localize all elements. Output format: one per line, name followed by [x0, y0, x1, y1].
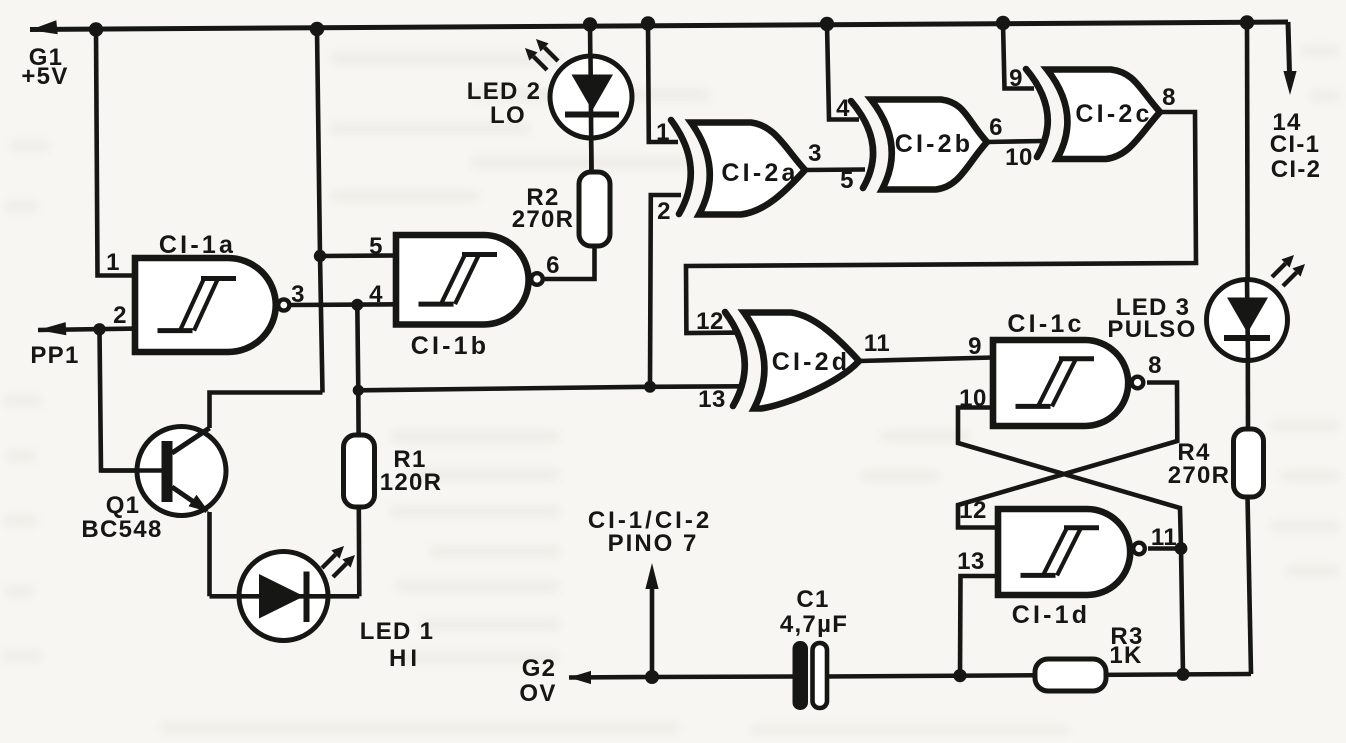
svg-text:CI-1: CI-1 — [1270, 131, 1321, 158]
svg-text:4: 4 — [836, 95, 850, 122]
svg-text:3: 3 — [291, 281, 305, 308]
svg-text:CI-2a: CI-2a — [721, 159, 798, 187]
svg-text:8: 8 — [1162, 84, 1176, 111]
svg-text:10: 10 — [959, 385, 987, 412]
svg-text:LO: LO — [490, 102, 526, 129]
svg-text:9: 9 — [968, 333, 982, 360]
svg-text:8: 8 — [1148, 352, 1162, 379]
svg-text:CI-2: CI-2 — [1271, 156, 1322, 183]
svg-text:PINO 7: PINO 7 — [608, 530, 699, 557]
svg-text:PP1: PP1 — [30, 342, 79, 369]
svg-text:270R: 270R — [1168, 462, 1231, 489]
svg-text:CI-1b: CI-1b — [411, 332, 490, 360]
svg-text:CI-1c: CI-1c — [1007, 310, 1084, 338]
svg-text:270R: 270R — [512, 206, 575, 233]
svg-text:10: 10 — [1005, 144, 1033, 171]
svg-text:CI-2b: CI-2b — [895, 130, 974, 158]
svg-text:6: 6 — [989, 114, 1003, 141]
svg-text:11: 11 — [864, 330, 890, 357]
svg-text:CI-2c: CI-2c — [1075, 100, 1152, 128]
svg-text:C1: C1 — [796, 586, 829, 613]
svg-text:CI-1d: CI-1d — [1012, 601, 1091, 629]
svg-text:13: 13 — [698, 386, 726, 413]
svg-text:5: 5 — [840, 167, 854, 194]
svg-text:LED 1: LED 1 — [360, 618, 435, 645]
svg-text:OV: OV — [519, 680, 556, 707]
svg-text:+5V: +5V — [21, 63, 68, 90]
svg-text:PULSO: PULSO — [1107, 316, 1196, 343]
svg-text:2: 2 — [113, 302, 127, 329]
svg-text:G2: G2 — [522, 655, 557, 682]
svg-text:9: 9 — [1009, 65, 1023, 92]
svg-text:1: 1 — [106, 249, 120, 276]
svg-text:BC548: BC548 — [81, 516, 162, 543]
svg-text:Q1: Q1 — [106, 492, 141, 519]
svg-text:CI-2d: CI-2d — [772, 348, 851, 376]
svg-text:1K: 1K — [1109, 642, 1142, 669]
svg-text:CI-1a: CI-1a — [159, 231, 236, 259]
svg-text:12: 12 — [959, 497, 987, 524]
svg-text:12: 12 — [696, 308, 724, 335]
svg-text:4: 4 — [369, 281, 383, 308]
svg-text:11: 11 — [1151, 524, 1177, 551]
svg-text:6: 6 — [546, 252, 560, 279]
svg-text:5: 5 — [369, 233, 383, 260]
svg-text:3: 3 — [808, 140, 822, 167]
svg-text:4,7µF: 4,7µF — [780, 611, 848, 638]
svg-text:120R: 120R — [380, 469, 443, 496]
svg-text:LED 2: LED 2 — [467, 78, 542, 105]
svg-text:1: 1 — [656, 119, 670, 146]
svg-text:2: 2 — [657, 198, 671, 225]
svg-text:HI: HI — [389, 645, 421, 672]
svg-text:13: 13 — [957, 548, 985, 575]
